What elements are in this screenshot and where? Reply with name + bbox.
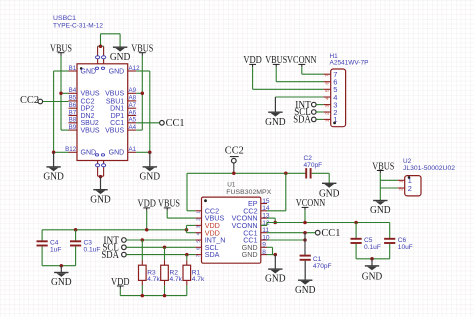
- svg-text:USBC1: USBC1: [53, 15, 76, 22]
- svg-text:VBUS: VBUS: [81, 91, 100, 98]
- wire VBUS U2 vertical: [379, 173, 381, 200]
- wire A1 link: [136, 151, 150, 153]
- svg-text:4.7k: 4.7k: [147, 276, 160, 283]
- svg-text:GND: GND: [140, 172, 161, 183]
- svg-text:VBUS: VBUS: [105, 91, 124, 98]
- svg-text:A5: A5: [129, 117, 137, 124]
- svg-text:1: 1: [325, 119, 331, 122]
- ground: [140, 152, 161, 182]
- junction VDD fork: [185, 228, 189, 232]
- wire shield bottom junction: [98, 175, 104, 177]
- svg-text:DN2: DN2: [81, 113, 95, 120]
- junction pin8 GND: [274, 253, 278, 257]
- net VBUS right flag: [131, 44, 153, 56]
- junction GND C3C4: [60, 264, 64, 268]
- svg-text:1uF: 1uF: [50, 247, 61, 254]
- resistor R1 4.7k: [183, 255, 205, 296]
- junction CC2-C2: [284, 172, 288, 176]
- wire SCL to H1 pin2: [316, 111, 323, 113]
- net VDD flag bottom: [111, 277, 130, 289]
- svg-text:FUSB302MPX: FUSB302MPX: [226, 189, 272, 196]
- svg-text:CC1: CC1: [110, 120, 124, 127]
- wire pin8 to GND: [267, 254, 275, 256]
- svg-text:DN1: DN1: [110, 106, 124, 113]
- svg-text:A4: A4: [129, 124, 137, 131]
- svg-text:JL301-50002U02: JL301-50002U02: [403, 165, 455, 172]
- junction B12: [52, 151, 56, 155]
- wire CC2 left down to pin1: [186, 173, 188, 211]
- wire VBUS right vertical: [141, 56, 143, 131]
- ground: [51, 266, 72, 288]
- svg-text:GND: GND: [43, 172, 64, 183]
- ground: [295, 261, 316, 296]
- junction C5 top: [354, 221, 358, 225]
- wire VBUS to H1 pin6: [275, 67, 277, 82]
- connector USBC1 TYPE-C-31-M-12: [53, 15, 140, 176]
- port CC1 (U1): [315, 228, 340, 239]
- capacitor C4 1uF: [37, 230, 62, 266]
- ground: [362, 259, 383, 283]
- svg-text:B4: B4: [69, 87, 77, 94]
- net VDD flag (U1): [137, 199, 156, 211]
- net VBUS flag (H1): [265, 55, 287, 67]
- wire C2 to GND: [312, 172, 330, 174]
- svg-text:CC2: CC2: [20, 95, 39, 106]
- svg-text:DP2: DP2: [81, 106, 95, 113]
- svg-text:4.7k: 4.7k: [192, 276, 205, 283]
- wire VDD to H1 pin5: [252, 67, 254, 89]
- svg-text:B9: B9: [69, 124, 77, 131]
- junction R2 top: [163, 246, 167, 250]
- wire CC2 horizontal: [187, 172, 306, 174]
- ground: [370, 200, 391, 216]
- resistor R3 4.7k: [139, 240, 161, 296]
- svg-text:GND: GND: [295, 285, 316, 296]
- junction VCONN label: [303, 221, 307, 225]
- wire CC2 to B5: [43, 101, 69, 103]
- ground: [43, 152, 64, 182]
- junction shield top: [99, 44, 103, 48]
- wire SDA to pin7: [126, 254, 195, 256]
- port SCL (U1): [102, 243, 126, 254]
- svg-text:5: 5: [325, 89, 331, 92]
- svg-text:B7: B7: [69, 109, 77, 116]
- svg-text:GND: GND: [242, 250, 258, 259]
- svg-text:SBU1: SBU1: [106, 98, 124, 105]
- wire resistor bottoms: [120, 295, 187, 297]
- wire VBUS to pin2: [166, 211, 168, 218]
- junction R3 top: [141, 238, 145, 242]
- net VBUS flag (U2): [372, 161, 394, 173]
- svg-text:10uF: 10uF: [398, 244, 413, 251]
- wire A9 link: [136, 92, 142, 94]
- net CC2 flag top: [225, 145, 244, 163]
- junction R2 bottom: [163, 294, 167, 298]
- svg-text:GND: GND: [81, 150, 97, 157]
- wire C4-C3 bottom: [42, 265, 76, 267]
- wire VBUS left vertical: [60, 56, 62, 131]
- svg-text:1: 1: [399, 180, 405, 183]
- wire pin10 to CC1 rail: [267, 239, 305, 241]
- svg-text:4.7k: 4.7k: [170, 276, 183, 283]
- capacitor C6 10uF: [384, 223, 413, 259]
- svg-text:GND: GND: [370, 205, 391, 216]
- svg-text:A6: A6: [129, 109, 137, 116]
- wire pin9 jog to pin8: [267, 246, 273, 248]
- wire SCL to pin6: [126, 246, 195, 248]
- svg-text:2: 2: [408, 184, 412, 193]
- net VBUS flag (U1): [158, 199, 180, 211]
- wire A12 link: [136, 70, 150, 72]
- wire VCONN label down: [304, 210, 306, 222]
- svg-text:0.1uF: 0.1uF: [84, 247, 101, 254]
- svg-text:GND: GND: [109, 150, 125, 157]
- junction CC2 label: [232, 172, 236, 176]
- svg-text:GND: GND: [265, 117, 286, 128]
- junction CC1 rail pin10: [303, 238, 307, 242]
- ground: [110, 47, 131, 63]
- svg-text:VCONN: VCONN: [296, 198, 326, 209]
- svg-text:GND: GND: [362, 271, 383, 282]
- svg-text:SBU2: SBU2: [81, 120, 99, 127]
- svg-text:470pF: 470pF: [304, 162, 323, 169]
- svg-text:GND: GND: [110, 52, 131, 63]
- wire INT to pin5: [126, 239, 195, 241]
- port INT (H1): [295, 100, 316, 111]
- svg-text:A7: A7: [129, 102, 137, 109]
- wire VCONN rail: [267, 222, 390, 224]
- svg-text:4: 4: [325, 97, 331, 100]
- svg-text:CC2: CC2: [81, 98, 95, 105]
- port SDA (U1): [101, 250, 126, 261]
- net GND left vertical (B1-B12): [53, 71, 55, 152]
- net VCONN flag (H1): [287, 55, 317, 67]
- resistor R2 4.7k: [161, 247, 183, 295]
- capacitor C3 0.1uF: [70, 230, 100, 266]
- wire CC1 rail down to C1: [304, 233, 306, 256]
- ground: [90, 177, 111, 206]
- svg-text:GND: GND: [81, 68, 97, 75]
- wire A5 to CC1: [136, 122, 159, 124]
- ground: [265, 255, 286, 285]
- svg-text:A2541WV-7P: A2541WV-7P: [330, 60, 369, 67]
- junction A1: [148, 151, 152, 155]
- svg-text:A8: A8: [129, 95, 137, 102]
- port SCL (H1): [294, 107, 316, 118]
- wire U2 pin1: [380, 179, 397, 181]
- wire CC2 label down: [233, 163, 235, 173]
- net VDD flag (H1): [243, 55, 262, 67]
- svg-text:B5: B5: [69, 95, 77, 102]
- svg-text:9: 9: [262, 242, 266, 249]
- junction pin13-12: [273, 221, 277, 225]
- svg-text:TYPE-C-31-M-12: TYPE-C-31-M-12: [53, 22, 103, 29]
- svg-text:A9: A9: [129, 87, 137, 94]
- svg-text:15: 15: [262, 198, 270, 205]
- wire B9 stub link: [61, 129, 69, 131]
- capacitor C2 470pF: [304, 155, 323, 178]
- capacitor C1 470pF: [300, 256, 332, 270]
- svg-text:8: 8: [262, 249, 266, 256]
- wire B4 stub link: [61, 92, 69, 94]
- wire INT to H1 pin3: [316, 104, 323, 106]
- wire VCONN to H1 pin7: [301, 67, 303, 74]
- svg-text:0.1uF: 0.1uF: [364, 244, 381, 251]
- svg-text:B1: B1: [69, 65, 77, 72]
- port CC1 right: [160, 118, 185, 129]
- ground: [265, 97, 286, 128]
- connector H1 A2541WV-7P: [323, 53, 368, 127]
- wire B1 link: [54, 70, 69, 72]
- wire SDA to H1 pin1: [316, 118, 323, 120]
- svg-text:CC2: CC2: [225, 145, 244, 156]
- svg-text:B6: B6: [69, 102, 77, 109]
- svg-text:GND: GND: [90, 194, 111, 205]
- junction VDD label: [145, 228, 149, 232]
- wire A4 link: [136, 129, 142, 131]
- svg-text:GND: GND: [265, 274, 286, 285]
- svg-text:2: 2: [325, 112, 331, 115]
- svg-text:7: 7: [325, 74, 331, 77]
- svg-text:SDA: SDA: [293, 115, 311, 126]
- wire pin11 to CC1: [267, 232, 315, 234]
- svg-text:2: 2: [399, 188, 405, 191]
- svg-text:6: 6: [325, 82, 331, 85]
- svg-text:DP1: DP1: [111, 113, 125, 120]
- svg-text:C1: C1: [313, 256, 322, 263]
- connector U2 JL301-50002U02: [398, 158, 456, 196]
- junction C3: [74, 228, 78, 232]
- op-amp U1 FUSB302MPX: [195, 182, 272, 264]
- net GND right vertical (A12-A1): [149, 71, 151, 152]
- port CC2 left: [20, 95, 43, 106]
- wire U2 pin2: [380, 187, 397, 189]
- wire VDD label down: [146, 211, 148, 230]
- svg-text:A1: A1: [129, 146, 137, 153]
- svg-text:GND: GND: [109, 68, 125, 75]
- port INT (U1): [103, 235, 126, 246]
- wire C5-C6 bottom: [356, 258, 390, 260]
- svg-text:CC1: CC1: [321, 228, 340, 239]
- svg-text:VBUS: VBUS: [81, 128, 100, 135]
- svg-text:470pF: 470pF: [313, 263, 332, 270]
- junction GND C5C6: [370, 257, 374, 261]
- ground: [319, 183, 340, 199]
- junction shield bottom: [99, 175, 103, 179]
- junction A9: [141, 92, 145, 96]
- wire H1 pin4 to GND: [275, 96, 323, 98]
- wire VDD fork: [186, 225, 188, 232]
- wire CC2 down to pin14: [285, 173, 287, 211]
- port SDA (H1): [293, 115, 316, 126]
- svg-text:VBUS: VBUS: [105, 128, 124, 135]
- svg-text:U2: U2: [403, 158, 412, 165]
- net VBUS left flag: [50, 44, 72, 56]
- svg-text:SDA: SDA: [101, 250, 119, 261]
- svg-text:GND: GND: [51, 277, 72, 288]
- net VCONN flag (U1): [296, 198, 326, 210]
- wire VDD rail horizontal: [42, 229, 186, 231]
- svg-text:3: 3: [325, 104, 331, 107]
- junction R3 bottom: [141, 294, 145, 298]
- svg-text:B8: B8: [69, 117, 77, 124]
- capacitor C5 0.1uF: [351, 223, 381, 259]
- svg-text:SDA: SDA: [205, 250, 220, 259]
- junction CC1 rail pin11: [303, 231, 307, 235]
- wire shield top to GND: [98, 45, 104, 47]
- svg-text:U1: U1: [227, 182, 236, 189]
- wire B12 link: [54, 151, 69, 153]
- junction B4: [59, 92, 63, 96]
- svg-text:CC1: CC1: [166, 118, 185, 129]
- wire pin13 jog to VCONN rail: [267, 217, 275, 219]
- junction R1 top: [185, 253, 189, 257]
- wire VDD bottom: [119, 289, 121, 296]
